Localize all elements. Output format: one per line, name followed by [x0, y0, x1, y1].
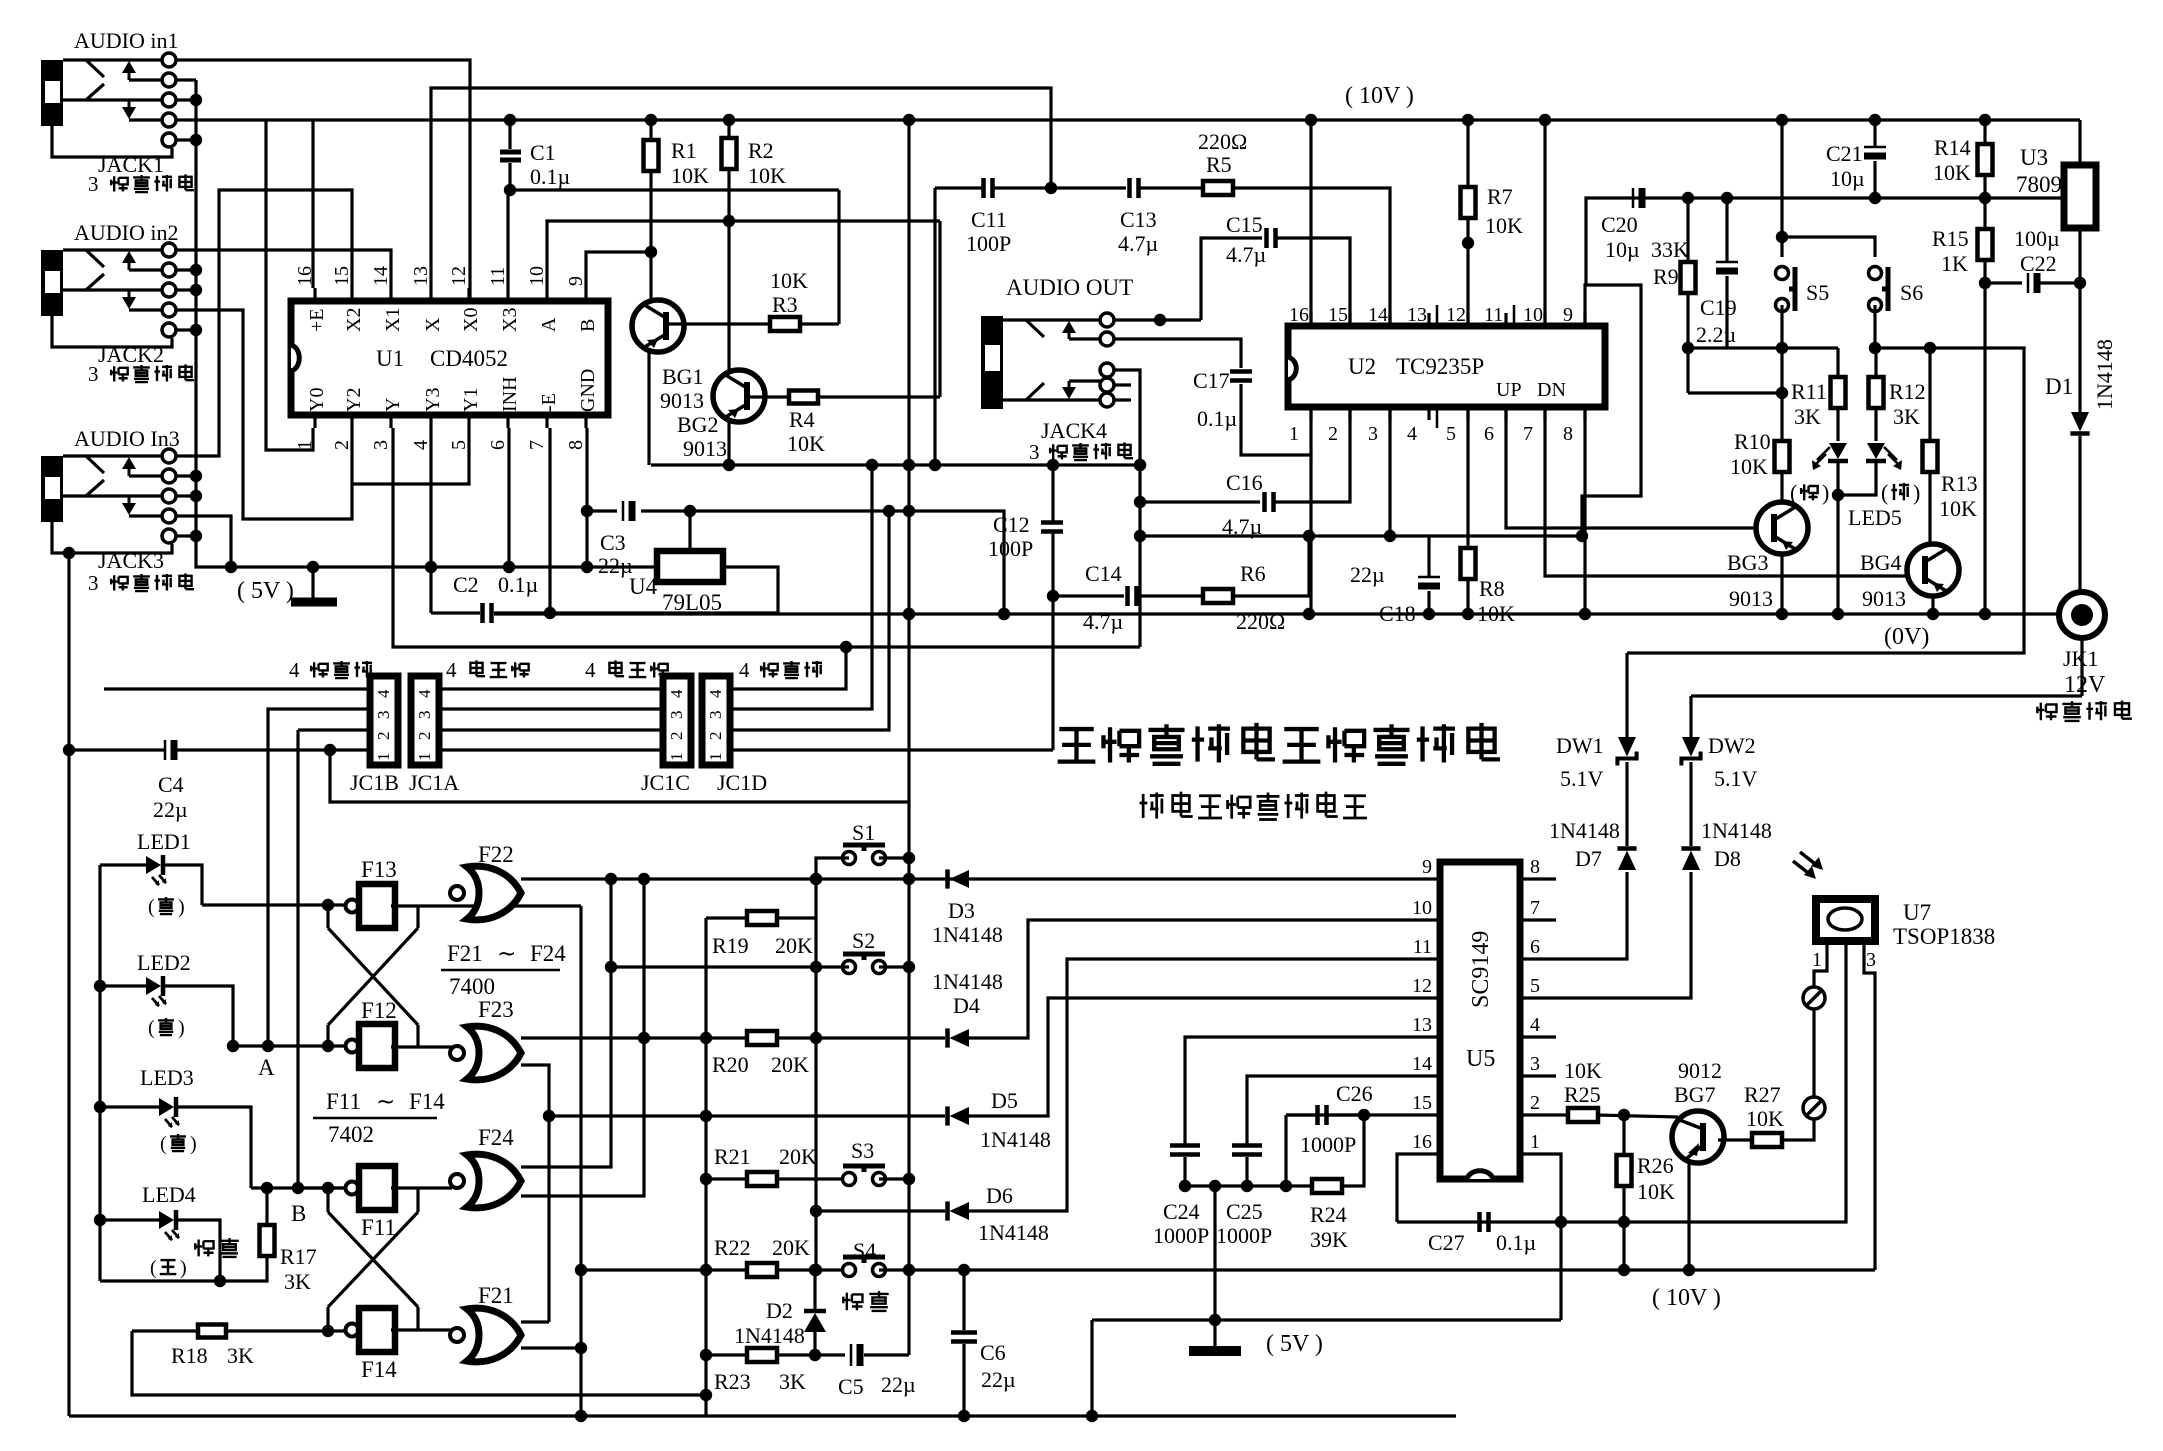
resistor R10 [1775, 441, 1790, 472]
svg-text:1: 1 [1812, 949, 1822, 971]
svg-text:1N4148: 1N4148 [2092, 339, 2117, 410]
svg-text:X: X [422, 317, 444, 332]
svg-text:R4: R4 [789, 407, 815, 432]
resistor R25 [1568, 1108, 1598, 1122]
svg-text:0.1µ: 0.1µ [530, 164, 570, 189]
svg-text:R8: R8 [1479, 576, 1505, 601]
wire LED4 cathode to mute row [176, 1220, 220, 1281]
resistor R19 row [706, 916, 747, 919]
IC U1 CD4052 body [291, 301, 608, 415]
wire R10 to BG3 collector [1780, 472, 1783, 503]
junction R9 bottom [1682, 342, 1694, 354]
svg-text:R15: R15 [1932, 226, 1969, 251]
wire U2 pin10 to 10V rail [1543, 120, 1546, 326]
svg-text:3: 3 [88, 571, 99, 595]
svg-text:1000P: 1000P [1153, 1223, 1209, 1248]
wire C22 row [1985, 281, 2022, 284]
wire C20 left leg to U2 pin9 node [1586, 198, 1634, 285]
U2 pin 15 stub top [1348, 313, 1351, 326]
svg-text:JC1C: JC1C [641, 770, 690, 795]
svg-text:6: 6 [487, 440, 509, 450]
svg-text:7400: 7400 [449, 974, 495, 999]
capacitor C22 (100u polar) [2027, 273, 2030, 293]
svg-text:7402: 7402 [328, 1122, 374, 1147]
U1 pin 15 stub (top) [350, 288, 353, 301]
wire C14 to R6 [1137, 594, 1203, 597]
svg-text:): ) [1913, 480, 1920, 505]
svg-text:4: 4 [1530, 1014, 1540, 1036]
subtitle: power-on mute state (hanzi) [1140, 793, 1164, 819]
svg-text:9012: 9012 [1678, 1058, 1722, 1083]
svg-text:4: 4 [374, 689, 393, 698]
screw terminal lower on U7 pin1 wire [1803, 1097, 1825, 1119]
U5 notch bottom [1467, 1171, 1493, 1179]
junction F12 row x328 [322, 1040, 334, 1052]
svg-text:U4: U4 [629, 574, 658, 599]
junction row1186 C25 [1241, 1180, 1253, 1192]
svg-text:4.7µ: 4.7µ [1226, 242, 1266, 267]
junction F22row x644 [638, 873, 650, 885]
wire C20 right to R9/C19/C21 row [1647, 196, 2065, 199]
LED LED2 (blue) [146, 977, 161, 995]
wire C1 bottom row to R3 node [510, 188, 839, 191]
wire 5V row (row1320) [1092, 1318, 1561, 1321]
svg-text:C26: C26 [1336, 1081, 1373, 1106]
gate F13 (7402) [346, 900, 359, 913]
U1 pin 1 stub (bottom) [313, 415, 316, 428]
junction C18 rail [1423, 608, 1435, 620]
wire C15 left vertical [1201, 238, 1262, 320]
wire U7 pin3 down to 10V row [1864, 941, 1875, 1270]
svg-text:22µ: 22µ [598, 553, 633, 578]
svg-text:A: A [538, 317, 560, 332]
svg-text:3K: 3K [227, 1343, 254, 1368]
wire JACK4 pin3 to row465/C16 [1114, 370, 1140, 647]
wire JC row pin3 west (to A) [268, 709, 370, 1046]
wire ground stem to 5V row [1213, 1186, 1216, 1347]
svg-text:C19: C19 [1700, 295, 1737, 320]
resistor R15 [1978, 229, 1993, 260]
junction x816 R20 [810, 1032, 822, 1044]
wire S5-S6 top link [1782, 237, 1875, 257]
svg-text:R1: R1 [671, 138, 697, 163]
U1 pin 7 stub (bottom) [545, 415, 548, 428]
svg-text:F24: F24 [530, 941, 566, 966]
svg-text:10K: 10K [748, 163, 786, 188]
wire U1 pin8 GND down to 5V row [585, 428, 588, 567]
junction jack3 pin3 [176, 494, 196, 497]
svg-text:Y2: Y2 [343, 388, 365, 412]
svg-text:BG3: BG3 [1727, 550, 1769, 575]
wire U5 pin1 down to 5V row [1520, 1154, 1561, 1320]
capacitor C16 [1265, 492, 1274, 512]
svg-text:C4: C4 [158, 772, 184, 797]
svg-text:): ) [178, 896, 185, 918]
svg-text:12: 12 [448, 266, 470, 286]
resistor R6 [1203, 589, 1233, 603]
wire F14 input row with R18 [132, 1329, 198, 1332]
capacitor C17 [1230, 372, 1252, 381]
wire LED1 anode [100, 863, 146, 866]
svg-text:1: 1 [706, 753, 725, 762]
svg-text:S2: S2 [852, 928, 875, 953]
svg-text:C25: C25 [1226, 1199, 1263, 1224]
junction x816 S4 row [810, 1264, 822, 1276]
svg-text:100µ: 100µ [2014, 226, 2060, 251]
wire F11 input row (B) [251, 1186, 346, 1189]
svg-text:LED4: LED4 [142, 1182, 196, 1207]
screw terminal upper on U7 pin1 wire [1803, 987, 1825, 1009]
wire LED5 cathodes join [1838, 461, 1876, 495]
wire U3 top to rail [2078, 120, 2081, 165]
junction S5 top link [1776, 231, 1788, 243]
capacitor C25 1000P [1232, 1146, 1262, 1155]
svg-text:3: 3 [88, 172, 99, 196]
diode D2 1N4148 vertical [813, 1270, 816, 1312]
wire U2 pin6 UP to BG3 base [1506, 407, 1756, 528]
wire JC row pin3 mid [439, 707, 663, 710]
svg-text:Y1: Y1 [460, 388, 482, 412]
wire C3 row east tail [909, 511, 1004, 614]
wire C11 row [935, 186, 984, 189]
svg-text:D6: D6 [986, 1183, 1013, 1208]
wire S3 right [879, 1177, 909, 1180]
gate F22 (7400) [450, 886, 464, 900]
junction F13out/S4 row [575, 1264, 587, 1276]
junction x816 D6 [810, 1205, 822, 1217]
svg-text:1K: 1K [1941, 251, 1968, 276]
wire R18 down to row1395 [132, 1331, 706, 1395]
svg-text:C11: C11 [971, 207, 1007, 232]
svg-text:D2: D2 [766, 1298, 793, 1323]
svg-text:S3: S3 [851, 1138, 874, 1163]
junction F22row x816 [810, 873, 822, 885]
jack JACK3 (audio input 3) [41, 456, 63, 522]
wire jack1 pin4 to U1 pin1 Y0 (nested U) [266, 120, 313, 450]
svg-text:7: 7 [1523, 423, 1533, 445]
capacitor C14 [1128, 586, 1137, 606]
svg-text:SC9149: SC9149 [1468, 931, 1494, 1008]
gate F14 (7402) [346, 1324, 359, 1337]
svg-text:7: 7 [526, 440, 548, 450]
IC U3 7809 body [2064, 165, 2096, 228]
switch S4 [843, 1264, 856, 1277]
svg-text:C17: C17 [1193, 368, 1230, 393]
junction R25/R26 [1618, 1109, 1630, 1121]
wire U1 pin11 X3 up to C1 node [506, 190, 509, 288]
junction R14 bottom [1979, 192, 1991, 204]
svg-text:10K: 10K [787, 431, 825, 456]
wire JC row pin2 west (to B) [298, 730, 352, 1188]
svg-text:D8: D8 [1714, 846, 1741, 871]
junction BG3 rail [1776, 608, 1788, 620]
wire U2 pin3 down [1388, 407, 1391, 536]
svg-text:R19: R19 [712, 933, 749, 958]
junction rail x909 [903, 608, 915, 620]
junction R6/row536 [1303, 530, 1315, 542]
svg-text:R7: R7 [1487, 184, 1513, 209]
svg-text:Y0: Y0 [306, 388, 328, 412]
svg-text:3: 3 [1530, 1053, 1540, 1075]
junction C12/C14 row [1047, 590, 1059, 602]
junction R15/C22 row [1979, 277, 1991, 289]
wire BG1 emitter to 0V row [647, 351, 650, 465]
svg-text:D3: D3 [948, 898, 975, 923]
svg-text:8: 8 [565, 440, 587, 450]
switch S1 [843, 852, 856, 865]
junction jack1 pin5 [176, 138, 196, 141]
svg-text:4: 4 [706, 689, 725, 698]
wire jack3 pin2 stub [176, 474, 196, 477]
svg-text:X3: X3 [499, 308, 521, 332]
svg-text:R14: R14 [1934, 135, 1971, 160]
wire X output U1 pin13 to C11 node [431, 88, 1051, 288]
svg-text:F14: F14 [409, 1089, 445, 1114]
junction jack2 pin3 [176, 288, 196, 291]
junction jack2 pin5 [176, 328, 196, 331]
capacitor C12 100P [1051, 465, 1054, 521]
junction BG7/10V row [1683, 1264, 1695, 1276]
U2 pin 11 stub top [1504, 313, 1507, 326]
wire BG4 emitter to rail [1931, 596, 1934, 614]
wire F22 input row upper (to D3 row) [521, 877, 953, 880]
svg-text:220Ω: 220Ω [1198, 129, 1247, 154]
U5 pin13 wire to C24 [1185, 1037, 1440, 1144]
svg-text:11: 11 [487, 267, 509, 286]
svg-text:9: 9 [1422, 856, 1432, 878]
wire jack2 pin2 stub [176, 268, 196, 271]
svg-text:CD4052: CD4052 [430, 346, 508, 371]
junction BG2 emitter/0V row [723, 459, 735, 471]
svg-text:UP: UP [1496, 379, 1522, 401]
svg-text:(: ( [148, 1017, 155, 1039]
svg-text:1N4148: 1N4148 [978, 1220, 1049, 1245]
junction F13 row x328 [322, 899, 334, 911]
svg-text:14: 14 [370, 266, 392, 286]
resistor R3 horizontal [664, 322, 770, 325]
junction R26/C27 row [1618, 1216, 1630, 1228]
svg-text:C3: C3 [600, 530, 626, 555]
junction row1186 gnd stem [1209, 1180, 1221, 1192]
svg-text:10K: 10K [1564, 1058, 1602, 1083]
capacitor C21 (10u polar) [1873, 120, 1876, 147]
U2 pin 16 stub top [1309, 313, 1312, 326]
resistor R26 [1622, 1115, 1625, 1155]
junction row647/x846 [840, 641, 852, 653]
svg-text:Y: Y [382, 398, 404, 412]
capacitor C24 1000P [1170, 1146, 1200, 1155]
junction R1 bottom node B [645, 246, 657, 258]
label JK1 coaxial socket (hanzi) [2037, 703, 2057, 721]
junction F13out/rail [575, 1410, 587, 1422]
svg-text:0.1µ: 0.1µ [1496, 1230, 1536, 1255]
label S4 mute (jingyin) [843, 1293, 863, 1311]
wire C5 right to bus [864, 1353, 909, 1356]
junction S3/bus [903, 1173, 915, 1185]
wire C2 row (0V rail west end) [431, 611, 480, 614]
wire S4 right [879, 1268, 909, 1271]
svg-text:C15: C15 [1226, 212, 1263, 237]
wire C14 row [1053, 594, 1124, 597]
diode D6 1N4148 [816, 1209, 945, 1212]
svg-text:R24: R24 [1310, 1202, 1347, 1227]
svg-text:LED5: LED5 [1848, 505, 1902, 530]
capacitor C13 [1130, 178, 1139, 198]
resistor R21 row (S3 row) [706, 1177, 747, 1180]
junction S5 R10 node [1776, 387, 1788, 399]
svg-text:A: A [258, 1055, 275, 1080]
svg-text:∼: ∼ [376, 1089, 395, 1114]
JACK4 pin circles [1100, 313, 1114, 327]
svg-text:22µ: 22µ [981, 1367, 1016, 1392]
junction R2 bottom node A [723, 215, 735, 227]
wire F21 output/tip joins mute vertical [521, 1346, 581, 1349]
svg-text:BG7: BG7 [1674, 1082, 1716, 1107]
svg-text:JACK4: JACK4 [1041, 418, 1107, 443]
U7 IR arrows [1793, 852, 1819, 876]
svg-text:7809: 7809 [2016, 172, 2062, 197]
wire C22 to D1 node [2040, 281, 2080, 284]
svg-text:3K: 3K [779, 1369, 806, 1394]
transistor BG1 9013 [632, 300, 684, 352]
svg-text:U1: U1 [376, 346, 404, 371]
wire R25 to BG7 base [1597, 1115, 1678, 1117]
wire emitter row y=465 [651, 463, 1140, 466]
svg-text:C13: C13 [1120, 207, 1157, 232]
svg-text:): ) [180, 1257, 187, 1279]
LED LED3 (blue) [159, 1098, 174, 1116]
svg-text:R27: R27 [1744, 1082, 1781, 1107]
svg-text:D7: D7 [1575, 846, 1602, 871]
svg-text:3: 3 [374, 711, 393, 720]
svg-text:13: 13 [410, 266, 432, 286]
svg-text:F24: F24 [478, 1125, 514, 1150]
svg-text:R25: R25 [1564, 1082, 1601, 1107]
svg-text:16: 16 [1289, 304, 1309, 326]
svg-text:1000P: 1000P [1300, 1132, 1356, 1157]
junction rail x1004 [998, 608, 1010, 620]
svg-text:B: B [577, 319, 599, 332]
svg-text:10: 10 [1412, 897, 1432, 919]
cross-coupling F11-F14 [326, 1188, 329, 1212]
wire U2 pin5 through R8 to rail [1466, 407, 1469, 548]
svg-text:R26: R26 [1637, 1153, 1674, 1178]
junction rail x1309 [1303, 608, 1315, 620]
connector JC1C body [663, 676, 691, 765]
svg-text:R18: R18 [171, 1343, 208, 1368]
LED5 red element [1829, 443, 1847, 459]
svg-text:0.1µ: 0.1µ [498, 572, 538, 597]
resistor R1 [649, 120, 652, 140]
wire C11 row west vertical x935 [933, 188, 936, 465]
U1 pin 12 stub (top) [467, 288, 470, 301]
junction A row x233 [227, 1040, 239, 1052]
junction stem/5V row [1209, 1314, 1221, 1326]
svg-text:8: 8 [1563, 423, 1573, 445]
junction jack3 sleeve x69 [63, 547, 75, 559]
junction row1395/x706 [700, 1389, 712, 1401]
junction row1186 C24 [1179, 1180, 1191, 1192]
svg-text:11: 11 [1484, 304, 1503, 326]
svg-text:R22: R22 [714, 1235, 751, 1260]
U5 pin15 wire (C26/R24) [1286, 1113, 1440, 1116]
svg-text:2: 2 [1530, 1092, 1540, 1114]
junction row465 x909 [903, 459, 915, 471]
svg-text:BG2: BG2 [677, 412, 719, 437]
wire U1 pin3 Y down and right (row 647) [393, 428, 1140, 647]
junction S6 bottom [1869, 342, 1881, 354]
capacitor C27 [1480, 1212, 1489, 1232]
wire mute row to R17 bottom [100, 1256, 267, 1281]
svg-text:3: 3 [1029, 440, 1040, 464]
junction jack3 pin5 [176, 534, 196, 537]
svg-text:13: 13 [1407, 304, 1427, 326]
svg-text:BG4: BG4 [1860, 550, 1902, 575]
junction F24 S2 row [605, 961, 617, 973]
junction C1 top [504, 114, 516, 126]
svg-text:R9: R9 [1653, 264, 1679, 289]
gate F12 (7402) [346, 1040, 359, 1053]
wire F12 output to F23 [391, 1045, 452, 1048]
capacitor C1 [508, 120, 511, 149]
svg-text:R21: R21 [714, 1144, 751, 1169]
connector JC1A body [411, 676, 439, 765]
wire JC row pin4 mid [439, 687, 663, 690]
wire U4 top stub [688, 511, 691, 552]
resistor R8 [1461, 548, 1476, 579]
svg-text:8: 8 [1530, 856, 1540, 878]
junction x706 10Vrow [700, 1264, 712, 1276]
wire row536 (C18 top) [1140, 534, 1429, 537]
svg-text:X0: X0 [460, 308, 482, 332]
U1 notch [291, 345, 299, 371]
U2 pin 5 stub bottom [1466, 407, 1469, 420]
svg-text:3: 3 [415, 711, 434, 720]
wire S2 row west [611, 965, 816, 968]
U5 pin8 stub [1520, 877, 1556, 880]
svg-text:1000P: 1000P [1216, 1223, 1272, 1248]
resistor R5 [1203, 181, 1233, 195]
svg-text:3K: 3K [284, 1269, 311, 1294]
svg-text:DW2: DW2 [1708, 733, 1756, 758]
svg-text:20K: 20K [772, 1235, 810, 1260]
junction x706 S3row [700, 1173, 712, 1185]
wire C4 to JC1B [177, 748, 370, 751]
svg-text:R13: R13 [1941, 471, 1978, 496]
svg-text:4: 4 [446, 658, 457, 682]
svg-text:R2: R2 [748, 138, 774, 163]
junction pin15/R24 link [1358, 1109, 1370, 1121]
svg-text:2.2µ: 2.2µ [1696, 322, 1736, 347]
svg-text:): ) [178, 1017, 185, 1039]
wire JACK4 tip row to C15 node [1114, 318, 1201, 321]
wire U1 pin6 INH down to 5V row [507, 428, 510, 567]
wire JC row pin1 east (to C12) [730, 748, 1053, 751]
wire JACK4 pin4 stub [1114, 383, 1131, 386]
svg-text:B: B [291, 1201, 306, 1226]
wire S1 right [879, 856, 909, 859]
IC U2 TC9235P body [1288, 326, 1605, 407]
svg-text:10K: 10K [1746, 1106, 1784, 1131]
svg-text:11: 11 [1413, 936, 1432, 958]
junction F22row x909 [903, 873, 915, 885]
wire C3 row continues right [690, 509, 909, 512]
gate F23 (7400) [450, 1046, 464, 1060]
svg-text:3: 3 [370, 440, 392, 450]
svg-text:C20: C20 [1601, 212, 1638, 237]
IC U4 79L05 body [657, 551, 723, 582]
svg-text:4: 4 [1407, 423, 1417, 445]
